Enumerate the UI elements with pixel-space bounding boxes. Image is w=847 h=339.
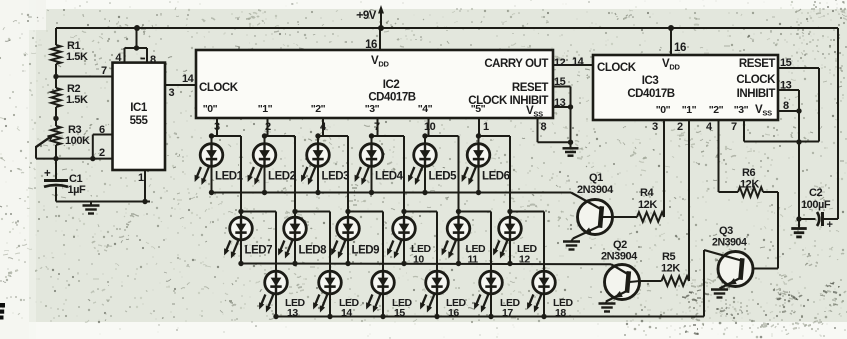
wire row3 cathode drops (276, 294, 544, 317)
svg-text:12K: 12K (740, 179, 759, 191)
resistor R2 (51, 83, 88, 107)
svg-text:LED1: LED1 (215, 171, 244, 183)
svg-text:RESET: RESET (739, 58, 776, 70)
wire IC3 clock-inhibit pin13 (778, 80, 802, 220)
wire 555 pin1 (138, 170, 145, 202)
svg-text:Q1: Q1 (589, 172, 603, 184)
wire IC2 carry-out to IC3 clock (553, 56, 593, 69)
junction rail-IC1 (134, 25, 140, 31)
svg-text:1: 1 (483, 121, 489, 133)
LED LED7 (224, 217, 272, 258)
wire IC3 out0 to R4 (663, 120, 665, 217)
wire IC3 out2 to R6 (718, 120, 720, 192)
svg-text:17: 17 (502, 307, 513, 319)
svg-text:13: 13 (287, 307, 298, 319)
wire IC2 output 5 net (476, 118, 544, 271)
svg-text:"0": "0" (656, 104, 671, 116)
wire +9V rail (56, 28, 838, 219)
wire R2 to R3 (53, 107, 58, 126)
wire Q3 emitter (720, 278, 742, 290)
LED LED15 (366, 271, 412, 319)
potentiometer R3 (36, 124, 90, 147)
wire C2 node (796, 216, 815, 221)
svg-text:6: 6 (99, 124, 105, 136)
svg-text:R4: R4 (640, 187, 654, 199)
svg-text:7: 7 (101, 65, 107, 77)
ground G1 (563, 242, 580, 250)
resistor R5 (640, 251, 690, 286)
svg-text:LED2: LED2 (268, 171, 296, 183)
svg-text:RESET: RESET (512, 82, 549, 94)
LED LED14 (313, 271, 359, 319)
LED LED5 (408, 144, 457, 185)
svg-text:3: 3 (652, 121, 658, 133)
resistor R6 (719, 167, 779, 197)
svg-text:14: 14 (572, 56, 585, 68)
IC3 pin numbers (652, 121, 737, 133)
IC2 output labels (203, 103, 486, 115)
svg-text:CLOCK: CLOCK (199, 82, 239, 94)
svg-text:INHIBIT: INHIBIT (737, 88, 776, 100)
svg-text:"4": "4" (418, 103, 433, 115)
svg-text:"5": "5" (471, 103, 486, 115)
svg-text:100K: 100K (65, 135, 90, 147)
pin label 8 (141, 54, 157, 66)
wire Q2 collector (611, 264, 628, 274)
svg-text:LED4: LED4 (375, 171, 404, 183)
ground G2 (599, 304, 616, 312)
LED LED4 (355, 144, 404, 185)
wire row2 cathode drops (241, 240, 510, 264)
wire Q2 base lead (630, 281, 640, 282)
svg-text:8: 8 (541, 121, 547, 133)
svg-text:2: 2 (99, 147, 105, 159)
LED LED1 (195, 144, 244, 185)
svg-text:IC2: IC2 (383, 79, 400, 91)
wire Q1 emitter (572, 226, 601, 242)
LED LED13 (259, 271, 305, 319)
wire 555 pin3 to IC2 pin14 (165, 73, 196, 99)
wire IC2 output 2 net (315, 118, 383, 271)
LED LED2 (248, 144, 296, 185)
svg-text:IC1: IC1 (130, 102, 148, 114)
transistor Q3 2N3904 (712, 225, 753, 287)
LED LED9 (331, 217, 379, 258)
wire rail to R1 (55, 28, 57, 45)
svg-text:"2": "2" (311, 103, 326, 115)
wire IC3 out1 to R5 (688, 120, 690, 281)
transistor Q1 2N3904 (577, 172, 614, 235)
capacitor C1 (44, 168, 86, 196)
wire IC2 clock-inhibit pin13 (553, 97, 573, 110)
svg-text:555: 555 (130, 115, 149, 127)
svg-text:"3": "3" (365, 103, 380, 115)
svg-text:R6: R6 (742, 167, 755, 179)
svg-text:8: 8 (150, 54, 156, 66)
svg-text:CD4017B: CD4017B (368, 92, 415, 104)
svg-text:1µF: 1µF (68, 184, 87, 196)
LED LED3 (301, 144, 349, 185)
ground G5 (83, 202, 100, 214)
svg-text:14: 14 (341, 307, 352, 319)
svg-text:100µF: 100µF (801, 199, 831, 211)
svg-text:15: 15 (394, 307, 405, 319)
svg-text:16: 16 (674, 42, 686, 54)
svg-text:C2: C2 (809, 187, 822, 199)
IC3 text labels (597, 58, 776, 118)
svg-text:7: 7 (731, 121, 737, 133)
wire 555 pin6 (90, 124, 112, 161)
svg-text:15: 15 (554, 76, 566, 88)
IC IC3 CD4017B (593, 55, 778, 120)
svg-text:10: 10 (424, 121, 436, 133)
svg-text:14: 14 (182, 73, 195, 85)
svg-text:16: 16 (365, 39, 377, 51)
LED LED8 (278, 217, 327, 258)
svg-text:10: 10 (413, 254, 424, 266)
svg-text:12K: 12K (661, 263, 680, 275)
wire Q3 collector (704, 250, 741, 317)
svg-text:16: 16 (448, 307, 459, 319)
wire R1 to R2 node (53, 64, 58, 88)
svg-text:8: 8 (783, 100, 789, 112)
svg-text:CD4017B: CD4017B (627, 88, 674, 100)
svg-text:13: 13 (554, 97, 566, 109)
resistor R4 (613, 187, 664, 222)
IC2 VDD pin 16 (365, 28, 389, 69)
wire row1 cathode drops (212, 166, 479, 192)
svg-text:LED5: LED5 (429, 171, 458, 183)
svg-text:R5: R5 (662, 251, 675, 263)
svg-text:1.5K: 1.5K (66, 94, 88, 106)
svg-text:13: 13 (780, 80, 792, 92)
wire IC2 output 3 net (369, 118, 437, 271)
junction rail-IC2 (378, 25, 384, 31)
svg-text:Q3: Q3 (719, 225, 733, 237)
LED LED16 (420, 271, 466, 319)
svg-text:12K: 12K (638, 199, 657, 211)
LED LED17 (474, 271, 520, 319)
svg-text:18: 18 (555, 307, 566, 319)
resistor R1 (51, 40, 88, 64)
wire 555 pins 4-8 strap (125, 28, 148, 63)
IC IC1 555 timer (113, 63, 166, 170)
svg-text:1: 1 (138, 172, 144, 184)
LED LED12 (493, 217, 537, 265)
LED LED10 (387, 217, 431, 265)
ground G4 (563, 142, 579, 156)
IC2 pin numbers (214, 121, 547, 133)
svg-text:15: 15 (780, 57, 792, 69)
svg-text:2N3904: 2N3904 (712, 237, 747, 249)
svg-text:LED9: LED9 (352, 245, 380, 257)
wire 555 pin7 (56, 65, 113, 77)
wire 555 pin2 (56, 147, 113, 159)
wire IC2 output 0 net (209, 118, 276, 271)
svg-text:3: 3 (169, 87, 175, 99)
svg-text:IC3: IC3 (642, 75, 659, 87)
svg-text:CLOCK: CLOCK (597, 62, 637, 74)
svg-text:2N3904: 2N3904 (601, 251, 638, 263)
IC2 text labels (199, 58, 548, 119)
IC IC2 CD4017B (196, 50, 553, 118)
transistor Q2 2N3904 (601, 239, 640, 300)
pin label 4 (115, 52, 122, 64)
svg-text:LED7: LED7 (245, 245, 273, 257)
svg-text:Q2: Q2 (613, 239, 627, 251)
ground G6 (791, 219, 807, 237)
wire Q1 collector (571, 193, 601, 210)
wire R3 to C1 node (53, 145, 58, 181)
svg-text:2N3904: 2N3904 (577, 184, 614, 196)
svg-text:1.5K: 1.5K (66, 51, 88, 63)
svg-text:LED3: LED3 (322, 171, 350, 183)
svg-text:+9V: +9V (357, 10, 377, 22)
svg-text:12: 12 (554, 57, 566, 69)
svg-text:"3": "3" (734, 104, 749, 116)
wire IC2 output 1 net (262, 118, 330, 271)
IC3 output labels (656, 104, 749, 116)
wire IC2 reset pin15 (553, 76, 571, 142)
junction rail-IC3 (668, 25, 674, 31)
LED LED6 (462, 144, 510, 185)
LED LED18 (527, 271, 573, 319)
svg-text:"0": "0" (203, 103, 218, 115)
wire R6 to Q3 base (743, 192, 778, 269)
svg-text:+: + (44, 168, 51, 180)
wire R3 wiper tie (36, 146, 56, 159)
svg-text:CARRY OUT: CARRY OUT (484, 58, 548, 70)
wire row2 cathode bus (238, 261, 611, 266)
svg-text:"1": "1" (682, 104, 697, 116)
wire IC2 output 4 net (422, 118, 491, 271)
wire Q2 emitter (606, 291, 628, 304)
svg-text:CLOCK: CLOCK (736, 74, 776, 86)
wire row3 cathode bus (273, 314, 704, 319)
capacitor C2 (801, 187, 838, 231)
wire IC2 VSS pin8 (538, 118, 574, 145)
svg-text:"1": "1" (258, 103, 273, 115)
svg-text:LED6: LED6 (482, 171, 510, 183)
LED LED11 (442, 217, 486, 265)
node +9V supply arrow (357, 5, 384, 28)
svg-text:12: 12 (519, 254, 530, 266)
svg-text:LED8: LED8 (299, 245, 328, 257)
wire IC3 reset pin15 loop (744, 57, 819, 142)
IC3 VDD pin 16 (662, 28, 686, 72)
wire Q3 base lead (742, 268, 744, 270)
wire IC3 VSS pin8 (778, 100, 802, 114)
wire Q1 base lead (603, 216, 614, 218)
svg-text:2: 2 (677, 121, 683, 133)
svg-text:+: + (827, 219, 833, 231)
wire row1 cathode bus (209, 190, 571, 195)
ground G3 (711, 290, 728, 298)
wire C1 to ground bus (56, 187, 150, 204)
svg-text:11: 11 (468, 254, 479, 266)
svg-text:"2": "2" (709, 104, 724, 116)
